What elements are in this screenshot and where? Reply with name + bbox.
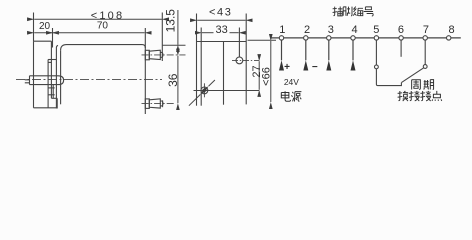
node pin6	[399, 36, 403, 40]
lower mounting hole	[201, 87, 208, 94]
node pin7	[423, 36, 427, 40]
front view inner right face upper	[238, 42, 240, 58]
svg-text:+: +	[284, 62, 290, 73]
bottom pin collar	[145, 99, 149, 109]
node pin3	[327, 36, 331, 40]
contact circle on pin5 lead	[375, 65, 379, 69]
body front face	[60, 50, 62, 104]
node pin8	[447, 36, 451, 40]
contact circle under pin 7	[423, 65, 427, 69]
pin terminal circles on main line	[279, 36, 451, 40]
bottom pin tip	[160, 101, 163, 106]
diagonal arrow lower left	[189, 95, 200, 106]
svg-text:33: 33	[215, 24, 227, 36]
switch blade	[401, 68, 424, 83]
flange bottom edge	[34, 107, 57, 109]
bolt shank ticks	[25, 80, 30, 83]
body top edge extension to the right	[163, 44, 186, 46]
svg-text:13.5: 13.5	[164, 9, 178, 33]
bottom pin trapezoid	[149, 99, 160, 108]
flange outer face	[33, 41, 35, 108]
side view: dim extension line at body back face top	[144, 28, 146, 48]
svg-text:<43: <43	[209, 6, 232, 18]
node pin5	[374, 36, 378, 40]
node pin1	[279, 36, 283, 40]
dimension <66 line	[270, 41, 272, 102]
svg-text:8: 8	[449, 24, 455, 36]
front view outer left face + extension	[196, 14, 198, 106]
svg-text:24V: 24V	[284, 77, 299, 87]
svg-text:<66: <66	[261, 67, 273, 86]
lower hole horizontal line	[194, 90, 260, 92]
mounting tab vertical	[47, 60, 49, 108]
pin 6 stub	[400, 40, 402, 57]
side view centerline (dash-dot)	[16, 78, 162, 80]
upper mounting hole	[236, 57, 243, 64]
svg-text:20: 20	[39, 21, 51, 32]
pin 1 arrow	[281, 40, 283, 60]
flange right face	[56, 45, 58, 108]
svg-text:70: 70	[97, 20, 109, 31]
pin 3 arrow	[328, 40, 330, 60]
svg-text:6: 6	[398, 24, 404, 36]
svg-text:36: 36	[166, 73, 180, 87]
pin 5 lead down	[376, 40, 401, 86]
label 换接接点	[398, 91, 442, 101]
pin 7 lead down	[424, 40, 426, 65]
dimension 36 line (shared with 13.5 lower arrow)	[177, 56, 179, 103]
33 dim extension left	[200, 28, 202, 42]
mounting tab top	[48, 59, 56, 61]
top pin trapezoid	[149, 50, 160, 59]
node pin4	[351, 36, 355, 40]
title 插脚编号	[333, 7, 374, 17]
upper hole centerline	[232, 59, 259, 61]
svg-text:1: 1	[279, 24, 285, 36]
front view top edge	[197, 41, 247, 43]
top extension for 66	[248, 39, 277, 41]
side view: dim extension line at 20/70 boundary	[52, 28, 54, 48]
dimension <108 line	[34, 18, 162, 20]
top pin collar	[145, 50, 149, 60]
svg-text:3: 3	[328, 24, 334, 36]
side view: dim extension line left (x=33.5)	[33, 13, 35, 42]
dimension 33 line split	[202, 32, 214, 34]
diagonal arrow upper right	[209, 80, 215, 86]
front view outer right face + extension	[245, 14, 247, 105]
dimension 20 line	[34, 32, 52, 34]
side view: right extension line (x=162.3)	[161, 13, 163, 62]
svg-text:5: 5	[373, 24, 379, 36]
lower tab lines	[52, 85, 54, 99]
label 周期	[412, 80, 434, 90]
dimension 13.5 vertical line upper tail	[177, 10, 179, 45]
body back face	[144, 48, 146, 115]
33 dim extension right	[238, 28, 240, 42]
pin 2 arrow	[305, 40, 307, 60]
mounting bolt body	[30, 76, 64, 85]
flange top edge	[34, 40, 52, 42]
pin 4 arrow	[352, 40, 354, 60]
front view center divider	[223, 42, 225, 105]
dimension 70 line	[53, 32, 144, 34]
bottom pin centerline	[142, 103, 175, 105]
dimension 27 line	[258, 61, 260, 90]
label 电源	[281, 91, 301, 101]
svg-text:2: 2	[304, 24, 310, 36]
svg-text:4: 4	[352, 24, 358, 36]
extension stub at bottom pin tip	[162, 100, 164, 107]
body top edge with corners	[61, 45, 146, 51]
top pin tip	[160, 52, 163, 57]
svg-text:7: 7	[423, 24, 429, 36]
flange inner vertical	[50, 41, 52, 98]
pin row main line	[271, 37, 460, 39]
front view inner left face	[200, 42, 202, 106]
top pin centerline	[142, 54, 186, 56]
lower hole vertical crosshair	[203, 83, 205, 97]
dimension <43 line	[197, 19, 245, 21]
mounting tab inner tick	[48, 61, 51, 63]
svg-text:−: −	[312, 62, 318, 73]
node pin2	[304, 36, 308, 40]
